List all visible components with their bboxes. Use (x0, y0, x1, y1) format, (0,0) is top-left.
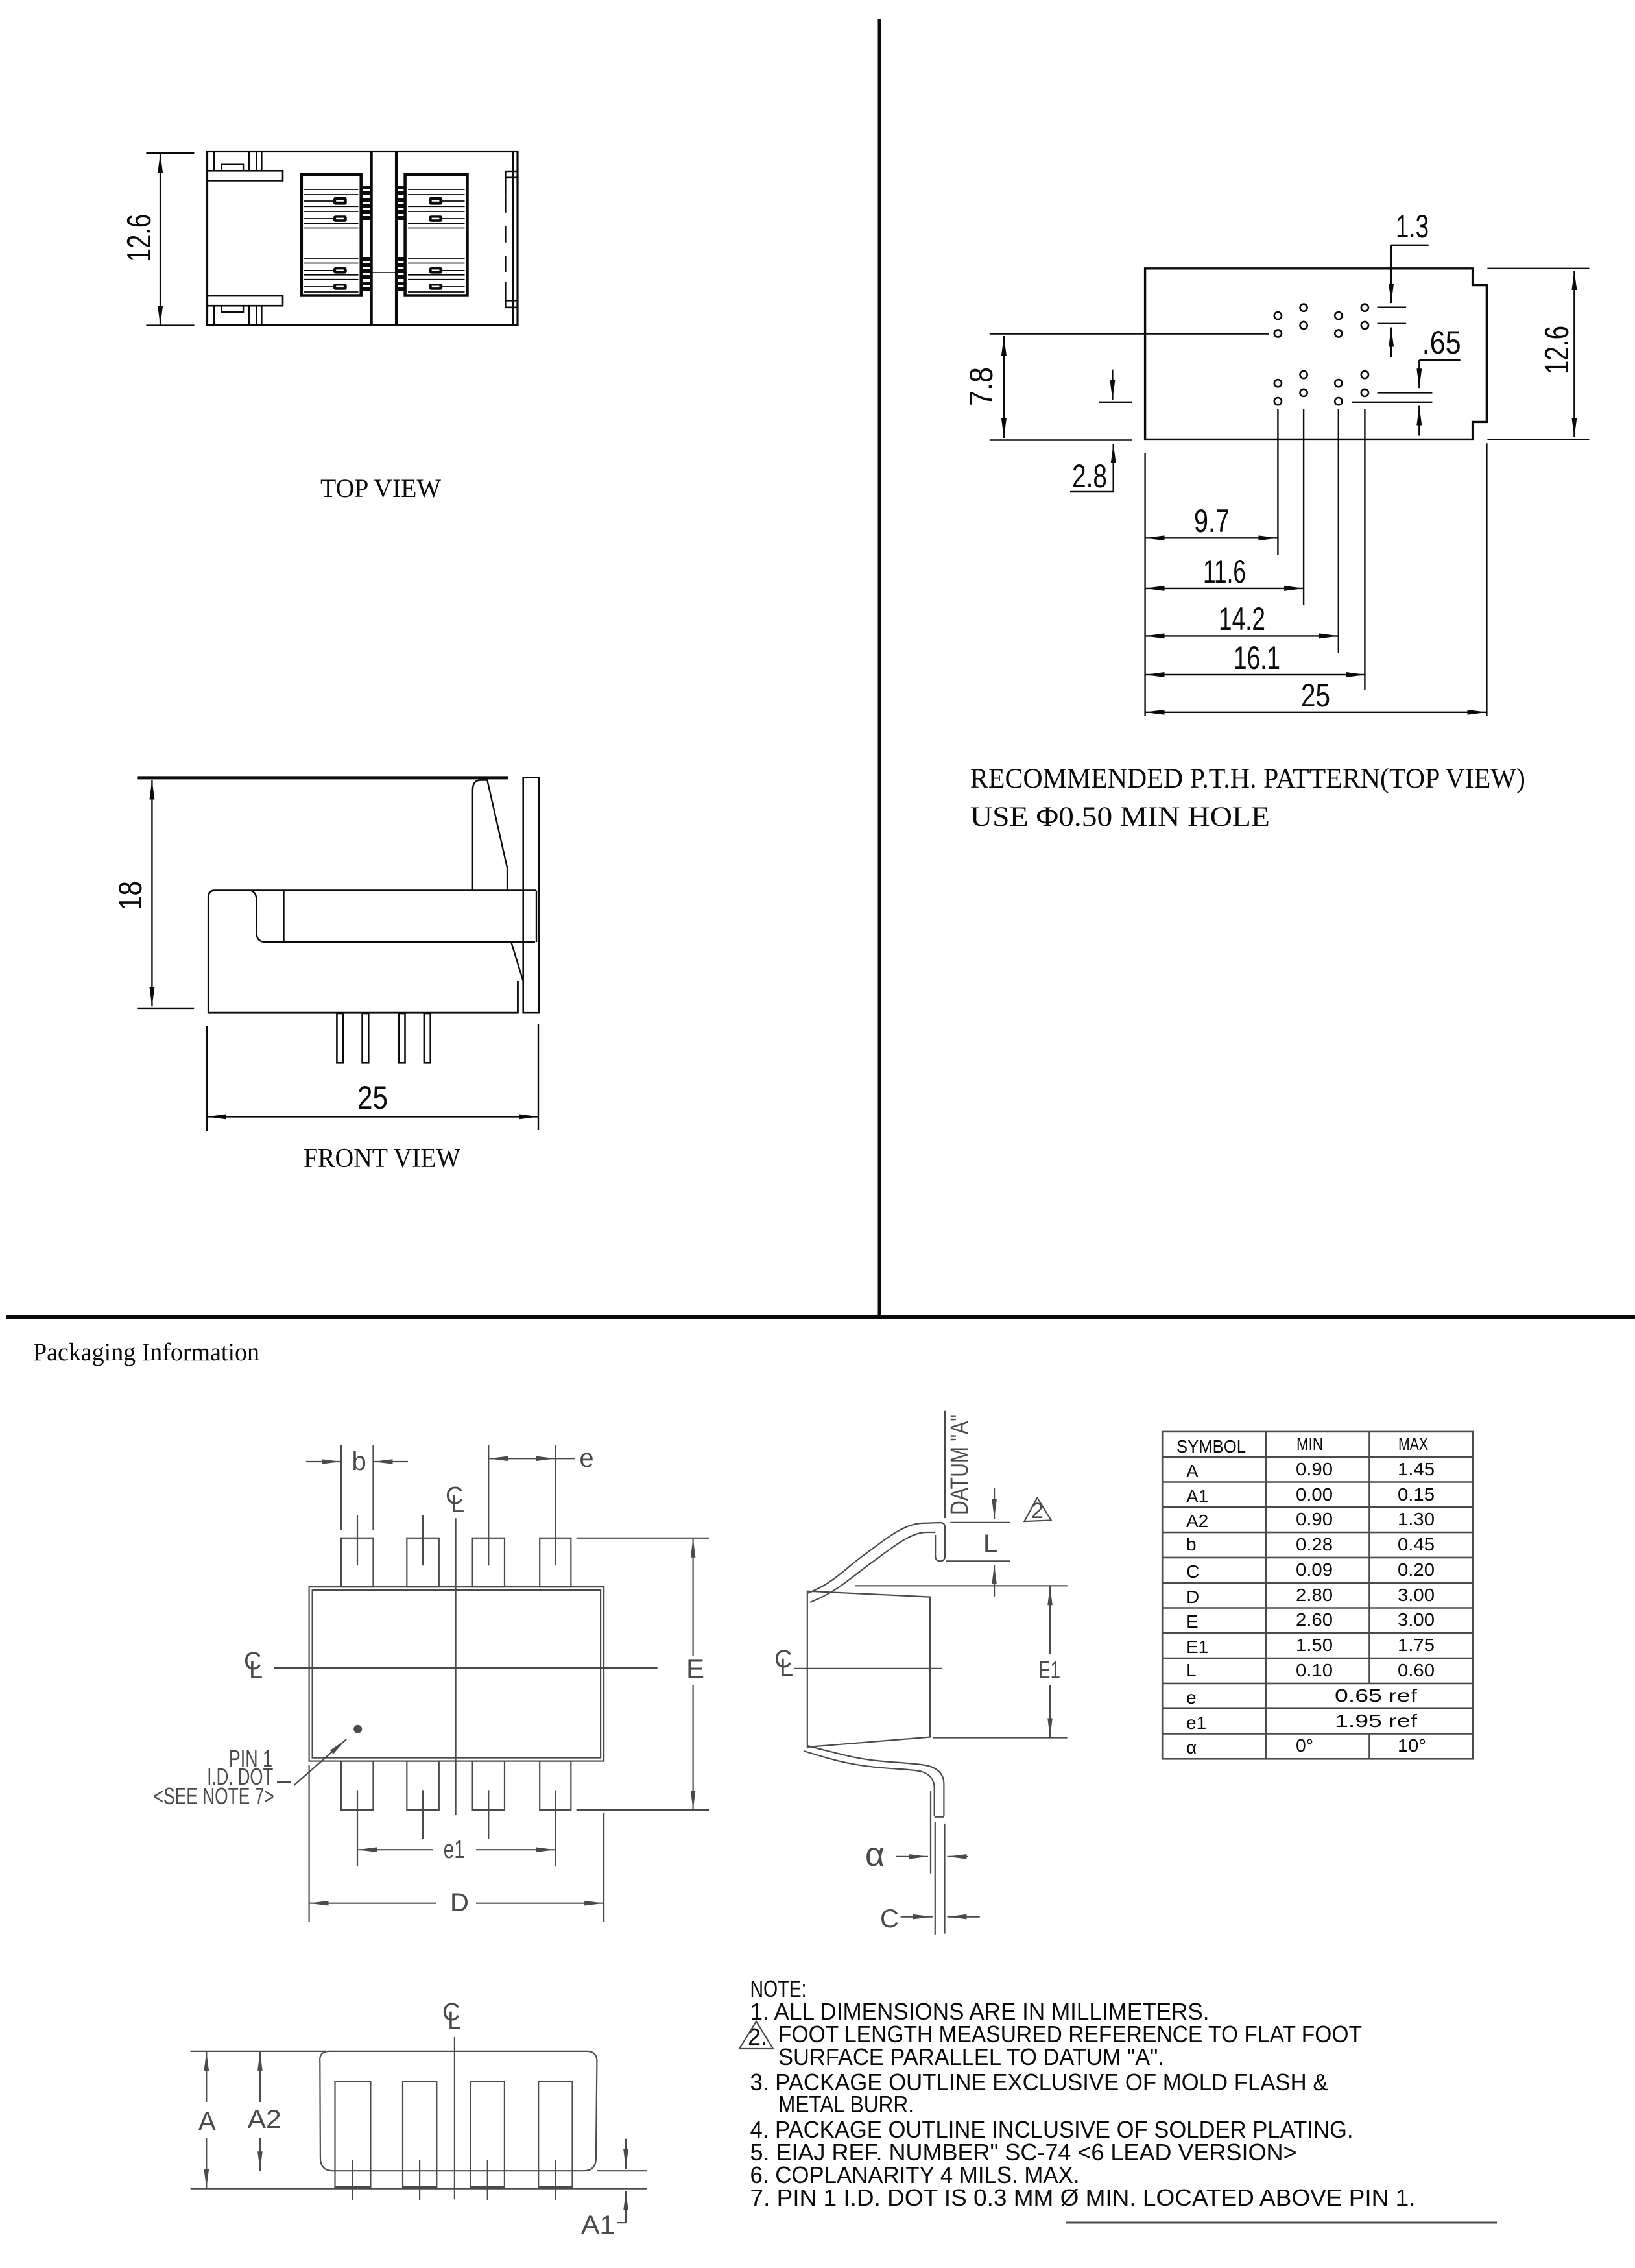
A-view top reference line (191, 2051, 326, 2052)
right latch hidden dashed line (505, 197, 507, 282)
dimension .65 leader (1352, 360, 1461, 436)
svg-text:L: L (1186, 1660, 1197, 1680)
lead tail line center (935, 1822, 936, 1935)
dimension A1 (617, 2139, 626, 2223)
front view handle right end (536, 891, 537, 943)
bottom-left mounting bracket (213, 306, 215, 325)
dimension e (488, 1458, 575, 1459)
right module contact fingers (396, 187, 405, 289)
svg-text:14.2: 14.2 (1219, 601, 1265, 637)
svg-text:0.15: 0.15 (1398, 1484, 1435, 1504)
svg-text:1.95 ref: 1.95 ref (1335, 1711, 1417, 1731)
A-view body bottom extension (597, 2170, 647, 2171)
svg-text:L: L (249, 1657, 263, 1684)
right wall inner line (512, 152, 514, 326)
svg-text:USE Φ0.50 MIN HOLE: USE Φ0.50 MIN HOLE (970, 802, 1270, 832)
foot level line (946, 1560, 1010, 1562)
right latch top tabs (505, 171, 518, 173)
PTH holes cluster lower (1274, 371, 1368, 405)
package body top view (309, 1587, 604, 1761)
PTH board outline (1145, 269, 1487, 440)
dimension 1.3 leader (1378, 245, 1429, 357)
svg-text:<SEE NOTE 7>: <SEE NOTE 7> (154, 1783, 274, 1809)
dimension 2.8 (1070, 370, 1132, 492)
svg-text:L: L (983, 1530, 997, 1558)
dimension 11.6 (1145, 588, 1304, 589)
front view handle bar top edge (215, 889, 536, 891)
svg-text:e: e (579, 1444, 593, 1473)
left module contact lines bottom (304, 258, 359, 292)
pin 4 (424, 1013, 431, 1063)
svg-text:0.09: 0.09 (1296, 1560, 1333, 1580)
A-view package body (320, 2051, 597, 2171)
center rail left (370, 152, 373, 326)
svg-text:3.00: 3.00 (1398, 1585, 1435, 1605)
left module terminal pads (333, 197, 347, 290)
bottom lead foot tip (935, 1816, 944, 1818)
svg-text:A: A (198, 2107, 216, 2136)
svg-text:0.60: 0.60 (1398, 1660, 1435, 1680)
front view handle bar bottom edge (266, 941, 535, 943)
lead tail reference line left (930, 1791, 931, 1874)
dimension 18 (front view height) (137, 780, 194, 1009)
svg-text:0.20: 0.20 (1398, 1560, 1435, 1580)
svg-text:1.30: 1.30 (1398, 1509, 1435, 1529)
svg-text:L: L (451, 1491, 464, 1518)
svg-text:E1: E1 (1038, 1657, 1060, 1684)
front view top reference line (137, 776, 508, 779)
svg-text:A2: A2 (1186, 1511, 1208, 1531)
left module contact lines top (304, 189, 359, 228)
dimension A (206, 2051, 207, 2189)
E1 extension lines (855, 1585, 1067, 1586)
svg-text:25: 25 (357, 1080, 388, 1116)
datum level line (950, 1522, 1010, 1523)
front view latch fin (473, 780, 507, 891)
svg-text:0.65 ref: 0.65 ref (1335, 1685, 1417, 1706)
dimension 14.2 (1145, 635, 1339, 636)
package lead 2 (407, 1761, 439, 1810)
front view latch lower taper (511, 942, 523, 1013)
E1 dim line (1049, 1586, 1051, 1654)
svg-text:A2: A2 (248, 2105, 281, 2134)
dimension 16.1 (1145, 674, 1366, 675)
A-view lead 3 (471, 2082, 505, 2187)
A-view lead 4 (538, 2082, 572, 2187)
svg-text:10°: 10° (1398, 1735, 1426, 1755)
svg-text:25: 25 (1301, 677, 1330, 714)
right latch line solid bottom (505, 282, 507, 308)
svg-text:0.28: 0.28 (1296, 1534, 1333, 1554)
svg-text:0.00: 0.00 (1296, 1484, 1333, 1504)
horizontal section divider (6, 1315, 1635, 1319)
svg-text:Packaging Information: Packaging Information (33, 1338, 259, 1366)
center rail right (395, 152, 398, 326)
PTH holes cluster upper (1274, 304, 1368, 337)
svg-text:2.80: 2.80 (1296, 1585, 1333, 1605)
svg-text:0°: 0° (1296, 1735, 1313, 1755)
svg-text:α: α (865, 1836, 885, 1874)
A-view centerline (454, 2037, 455, 2199)
svg-text:C: C (880, 1905, 899, 1933)
dimension 12.6 (PTH height) (1487, 269, 1589, 440)
svg-text:3.00: 3.00 (1398, 1610, 1435, 1630)
bottom-left flange bar (207, 296, 283, 306)
lead center ticks bottom (357, 1790, 358, 1866)
svg-text:D: D (450, 1888, 469, 1917)
horizontal centerline (274, 1667, 657, 1669)
svg-text:0.45: 0.45 (1398, 1534, 1435, 1554)
note 2 triangle (739, 2021, 773, 2049)
svg-text:11.6: 11.6 (1203, 553, 1246, 590)
svg-text:7.8: 7.8 (963, 367, 999, 406)
package lead 1 (341, 1761, 374, 1810)
svg-text:MAX: MAX (1398, 1434, 1428, 1454)
dimension 7.8 (990, 334, 1269, 440)
lead tick marks (352, 2160, 353, 2200)
L dim arrows (994, 1488, 995, 1519)
svg-text:2.60: 2.60 (1296, 1610, 1333, 1630)
dimension 12.6 (top view height) (146, 153, 194, 325)
svg-text:α: α (1186, 1737, 1197, 1757)
right latch bottom tabs (505, 300, 518, 302)
lead center ticks top (357, 1515, 358, 1565)
svg-text:b: b (352, 1447, 366, 1476)
svg-text:b: b (1186, 1534, 1197, 1554)
svg-text:1.75: 1.75 (1398, 1635, 1435, 1655)
svg-text:FRONT VIEW: FRONT VIEW (304, 1144, 460, 1174)
svg-text:RECOMMENDED P.T.H. PATTERN(TOP: RECOMMENDED P.T.H. PATTERN(TOP VIEW) (970, 764, 1525, 794)
bottom lead inner edge (807, 1746, 944, 1816)
package lead 4 (540, 1761, 571, 1810)
svg-text:SYMBOL: SYMBOL (1176, 1436, 1246, 1456)
svg-text:e1: e1 (1186, 1713, 1206, 1733)
svg-text:E: E (1186, 1611, 1199, 1632)
notes block (748, 1975, 1416, 2211)
pin 1 (337, 1013, 343, 1063)
center cross link wire (361, 272, 407, 273)
left module contact fingers (361, 187, 372, 289)
table text (1176, 1434, 1435, 1757)
right module terminal pads (429, 197, 443, 290)
package body side view (807, 1591, 930, 1747)
svg-text:2.: 2. (748, 2023, 767, 2050)
svg-text:.65: .65 (1422, 324, 1461, 361)
top-left mounting bracket (213, 152, 215, 171)
bottom underline (1066, 2222, 1497, 2224)
dimension A2 (259, 2051, 261, 2171)
front view body outline (208, 891, 518, 1013)
A-view lead 1 (335, 2082, 371, 2187)
dimension table (1162, 1432, 1473, 1759)
dimension D (309, 1765, 604, 1922)
dimension 25 (front view width) (207, 1024, 538, 1131)
svg-text:0.90: 0.90 (1296, 1459, 1333, 1479)
svg-text:0.10: 0.10 (1296, 1660, 1333, 1680)
dimension E (577, 1538, 709, 1810)
svg-text:L: L (448, 2007, 461, 2034)
svg-text:A1: A1 (1186, 1486, 1208, 1506)
dimension e1 (357, 1849, 555, 1850)
svg-text:DATUM "A": DATUM "A" (946, 1414, 973, 1515)
package lead 7 (407, 1538, 439, 1587)
svg-text:e: e (1186, 1687, 1197, 1707)
svg-text:2: 2 (1031, 1499, 1044, 1523)
dimension b (306, 1445, 408, 1530)
dimension 9.7 (1145, 537, 1278, 538)
svg-text:METAL BURR.: METAL BURR. (778, 2091, 914, 2117)
A-view lead 2 (403, 2082, 436, 2187)
svg-text:0.90: 0.90 (1296, 1509, 1333, 1529)
svg-text:12.6: 12.6 (121, 214, 158, 262)
svg-text:9.7: 9.7 (1194, 503, 1230, 539)
svg-text:TOP VIEW: TOP VIEW (320, 474, 441, 503)
package lead 8 (341, 1538, 374, 1587)
vertical centerline (455, 1518, 457, 1815)
svg-text:E: E (686, 1654, 704, 1684)
svg-text:MIN: MIN (1296, 1434, 1323, 1454)
svg-text:12.6: 12.6 (1538, 326, 1576, 374)
A-view seating plane line (191, 2188, 647, 2190)
svg-text:SURFACE PARALLEL TO DATUM "A".: SURFACE PARALLEL TO DATUM "A". (778, 2044, 1164, 2070)
svg-text:C: C (1186, 1562, 1199, 1582)
top lead outer edge (807, 1523, 945, 1593)
PTH column extension lines (1145, 409, 1487, 716)
vertical section divider (878, 19, 881, 1316)
top-left flange bar (207, 171, 283, 180)
right latch line solid top (505, 171, 507, 197)
package lead 5 (540, 1538, 571, 1587)
svg-text:2.8: 2.8 (1072, 458, 1107, 494)
pin 2 (363, 1013, 369, 1063)
connector top view outer body (208, 152, 518, 326)
svg-text:E1: E1 (1186, 1637, 1208, 1657)
pin 1 leader arrow (294, 1739, 346, 1785)
svg-text:L: L (780, 1654, 793, 1682)
svg-text:16.1: 16.1 (1234, 640, 1280, 676)
pin 1 I.D. dot (353, 1725, 362, 1733)
svg-text:e1: e1 (444, 1835, 465, 1864)
bottom lead outer edge (804, 1751, 935, 1816)
svg-text:18: 18 (112, 881, 149, 910)
svg-text:A: A (1186, 1461, 1199, 1481)
right module contact lines top (408, 189, 465, 228)
lead tail line right (944, 1824, 945, 1934)
note 2 triangle (1024, 1498, 1051, 1521)
svg-text:1.3: 1.3 (1396, 208, 1429, 245)
datum A line (944, 1411, 946, 1518)
pin 3 (399, 1013, 405, 1063)
svg-text:A1: A1 (581, 2211, 615, 2239)
right contact module (405, 175, 468, 295)
front view PCB panel (523, 777, 540, 1013)
left contact module (302, 175, 361, 295)
package lead 6 (473, 1538, 505, 1587)
side view centerline (794, 1668, 942, 1669)
svg-text:7. PIN 1 I.D. DOT IS 0.3 MM Ø: 7. PIN 1 I.D. DOT IS 0.3 MM Ø MIN. LOCAT… (750, 2184, 1416, 2211)
svg-text:1.50: 1.50 (1296, 1635, 1333, 1655)
dimension 25 (PTH width) (1145, 712, 1487, 713)
front view handle divider (283, 891, 284, 943)
package lead 3 (473, 1761, 505, 1810)
front view handle step (250, 891, 266, 943)
right module contact lines bottom (408, 258, 465, 292)
svg-text:D: D (1186, 1587, 1199, 1607)
svg-text:1.45: 1.45 (1398, 1459, 1435, 1479)
top lead inner edge (810, 1532, 935, 1602)
